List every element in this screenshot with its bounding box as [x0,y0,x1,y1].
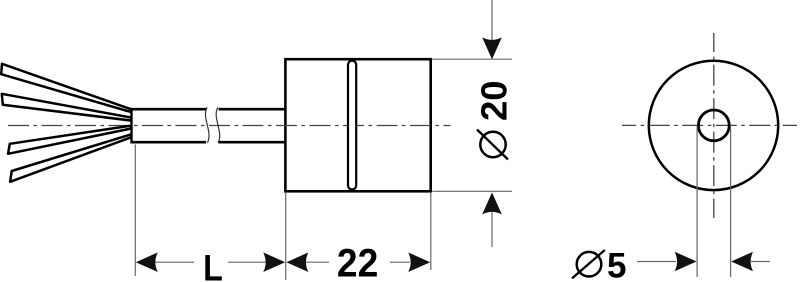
dimension D5 line left [637,261,676,263]
wire 4 [10,134,131,182]
extension line at body left [285,193,287,280]
dimension 22 line left part [305,261,329,263]
dimension D5 arrow left [675,252,697,272]
dimension 22 line right part [390,261,410,263]
dimension L arrow left [136,252,158,272]
front view outer circle [649,61,778,190]
extension line inner circle left [696,125,698,277]
groove ring on body [348,61,356,190]
centerline side view [8,125,451,127]
dimension D5 line right [751,261,770,263]
cable break line right [216,107,220,143]
cable break line left [205,107,209,143]
svg-text:22: 22 [337,241,378,282]
svg-text:20: 20 [474,80,515,121]
cable right segment [219,108,286,111]
dimension 22 arrow left [286,252,308,272]
dimension L line left part [154,261,194,263]
extension line inner circle right [730,125,732,277]
dimension L line right part [228,261,268,263]
dimension 22 arrow right [408,252,430,272]
front view horizontal centerline [622,124,797,126]
dimension L arrow right [263,252,285,272]
extension line at body right [430,193,432,270]
cable end cap [130,108,132,144]
label D20 rotated [474,80,515,159]
extension line at cable end [134,145,136,277]
dimension D20 arrow top [491,0,493,40]
extension line body bottom right [432,190,512,192]
sensor body M8 housing [285,59,430,191]
label D5 [572,246,626,282]
svg-text:5: 5 [607,246,626,282]
dimension D20 arrow bottom [491,210,493,247]
wire 3 [8,126,131,154]
cable left segment [131,108,206,111]
dimension D5 arrow right [731,252,753,272]
wire 1 [1,64,131,112]
front view inner circle [698,110,729,141]
front view vertical centerline [713,33,715,218]
extension line body top right [432,58,512,60]
wire 2 [2,94,132,121]
svg-text:L: L [203,247,223,282]
